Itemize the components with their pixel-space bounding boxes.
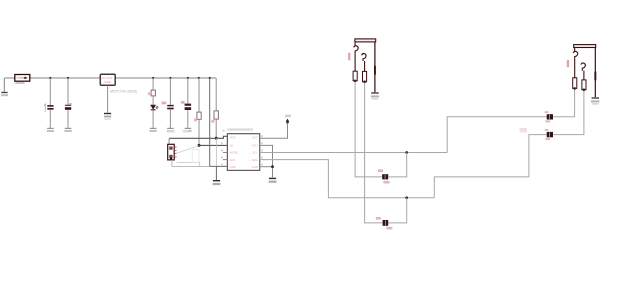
resistor R5 (545, 129, 553, 140)
resistor R6 (378, 169, 390, 183)
junction dot (187, 77, 189, 79)
svg-text:GND: GND (104, 80, 112, 84)
wire VCC rail (4, 77, 216, 79)
wire VDD branch (210, 78, 228, 166)
junction dot SDA (405, 196, 408, 199)
svg-text:← SDA: ← SDA (248, 158, 257, 162)
junction dot (67, 77, 69, 79)
capacitor C2 (65, 78, 72, 128)
resistor R1 (148, 78, 156, 96)
label J2 (348, 53, 350, 60)
junction dot (198, 77, 200, 79)
pin number labels U1 (221, 130, 263, 166)
wire connector to pin1 net (168, 138, 170, 144)
junction dot J3 ring (583, 88, 586, 91)
junction dot (209, 77, 211, 79)
resistor R4 (545, 111, 553, 122)
pin stub U1 left pin3 (223, 152, 228, 154)
svg-text:AD0: AD0 (230, 158, 236, 162)
wire SDA net (260, 90, 584, 198)
svg-text:GND: GND (252, 165, 258, 169)
fuse F1 (15, 75, 30, 85)
wire IC pin2R to ground (260, 145, 273, 177)
audio jack J2 (353, 39, 376, 92)
junction dot (49, 77, 51, 79)
faint box artifact (192, 149, 199, 162)
ground GND under C1 (47, 128, 54, 132)
ground GND left edge (1, 78, 8, 96)
svg-text:VDD: VDD (230, 136, 236, 140)
capacitor C3 (162, 78, 174, 128)
wire faint stem to gnd crossing (215, 138, 217, 166)
audio jack J3 (573, 45, 597, 97)
wire J2 tip to SCL (355, 81, 407, 177)
pin labels U1 right (248, 136, 258, 169)
svg-text:MCP1700-3302E: MCP1700-3302E (110, 89, 138, 93)
svg-text:A0: A0 (230, 144, 234, 148)
junction dot SCL (405, 151, 408, 154)
junction dot J2 ring (363, 80, 366, 83)
svg-text:← SCL: ← SCL (249, 151, 258, 155)
resistor R7 (376, 217, 393, 229)
resistor R3 pullup (211, 78, 218, 138)
svg-text:MODE: MODE (230, 151, 239, 155)
ground GND under C2 (64, 128, 71, 132)
ground GND under IC right (269, 178, 277, 182)
junction dot J3 tip (573, 87, 576, 90)
junction dot (271, 165, 274, 168)
IC U1 body (227, 128, 259, 170)
label smudge near SDA corner (520, 128, 528, 133)
wire SCL net (260, 88, 575, 152)
svg-text:OUT: OUT (252, 136, 258, 140)
resistor R2 pullup (194, 78, 201, 145)
junction dot J2 tip (354, 80, 357, 83)
junction dot R3 to pin1 wire (215, 137, 218, 140)
wire IC pin5R (260, 166, 273, 168)
svg-text:INT1: INT1 (252, 144, 259, 148)
svg-text:GND: GND (230, 165, 236, 169)
ground GND under IC left (213, 166, 221, 185)
regulator U2 (100, 74, 115, 85)
wire J2 ring to SDA (365, 82, 407, 223)
wire INT flag (260, 115, 291, 139)
ground GND under C3 (167, 128, 174, 132)
pin labels U1 left (230, 136, 239, 169)
capacitor C1 (44, 78, 54, 128)
LED D1 (151, 96, 159, 128)
junction dot R2 to pin2 wire (198, 144, 201, 147)
ground GND J3 sleeve (591, 98, 599, 105)
wire faint J1 pin2 (177, 162, 200, 166)
junction dot (152, 77, 154, 79)
wire diagonal from J1 pin3 (177, 146, 199, 153)
ground GND under U2 (104, 85, 111, 119)
capacitor C4 (181, 78, 191, 128)
connector J1 (168, 130, 189, 160)
wire IC pin2 (199, 144, 227, 146)
junction dot (169, 77, 171, 79)
pin stub U1 left pin4 (223, 159, 228, 161)
label J3 (567, 60, 569, 67)
wire IC pin1 (169, 136, 227, 138)
ground GND under C4 (184, 128, 191, 132)
ground GND under LED (149, 128, 156, 132)
ground GND J2 sleeve (371, 93, 379, 100)
wire faint J1 pin4 to VDD (172, 160, 210, 167)
